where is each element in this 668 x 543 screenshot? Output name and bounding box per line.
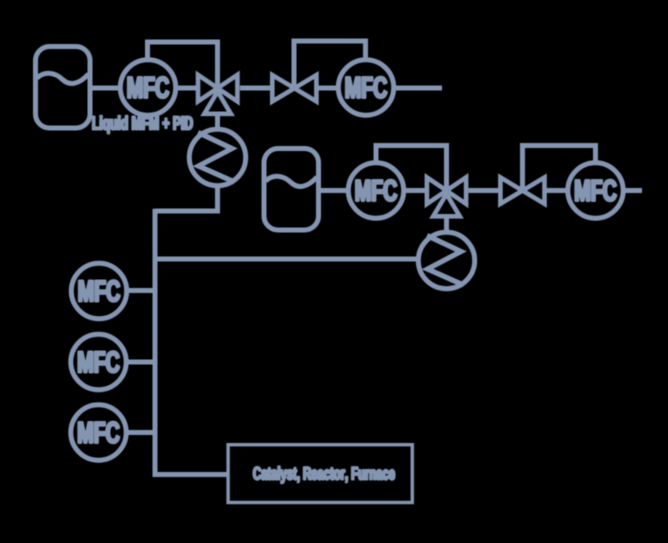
wire T2 to MFC3 — [319, 188, 349, 193]
wire MFC4 outlet — [623, 188, 642, 193]
wire V1 to V2 — [240, 86, 272, 91]
heater zigzag E1 — [198, 133, 235, 183]
label MFC M1 — [128, 77, 169, 98]
wire V3 to evaporator E2 — [444, 216, 449, 233]
valve V1 (3-way valve, row 1) — [198, 75, 237, 114]
label MFC M2 — [346, 77, 387, 98]
tank T1 (liquid vessel, row 1) — [36, 47, 91, 129]
wire MFC3 to V3 — [404, 188, 426, 193]
MFC M3 (row 2 liquid MFC) — [348, 163, 403, 218]
tank T2 (liquid vessel, row 2) — [264, 149, 319, 231]
wire MFC2 outlet — [394, 86, 442, 91]
label MFC M6 — [79, 351, 120, 372]
evaporator E2 (CEM, row 2) — [418, 232, 474, 288]
wire MFC1 to V1 — [176, 86, 196, 91]
label MFC M5 — [79, 280, 120, 301]
wire header spine — [155, 209, 227, 475]
MFC M7 (gas MFC 3) — [71, 405, 126, 460]
wire V1 to evaporator E1 — [215, 114, 220, 130]
wire bypass row1 left (MFC1 top to valve V1) — [148, 42, 218, 88]
wire bypass row1 right (valve V2 to MFC2 top) — [294, 41, 366, 88]
MFC M1 (row 1 liquid MFC) — [120, 60, 175, 115]
valve V4 (2-way valve, row 2) — [500, 177, 544, 203]
MFC M2 (row 1 outlet MFC) — [338, 60, 393, 115]
wire V3 to V4 — [469, 188, 501, 193]
liquid level wave T2 — [266, 176, 318, 186]
label MFC M7 — [79, 422, 120, 443]
wire bypass row2 right (valve V4 to MFC4 top) — [523, 146, 596, 191]
valve V3 (3-way valve, row 2) — [427, 177, 466, 216]
wire MFC6 to header — [126, 360, 155, 365]
wire MFC5 to header — [127, 288, 155, 293]
MFC M5 (gas MFC 1) — [71, 263, 126, 318]
wire V4 to MFC4 — [546, 188, 568, 193]
heater zigzag E2 — [427, 236, 464, 286]
valve V2 (2-way valve, row 1) — [272, 75, 316, 101]
wire MFC7 to header — [126, 430, 155, 435]
label MFC M4 — [576, 180, 617, 201]
wire bypass row2 left (MFC3 top to valve V3) — [376, 146, 447, 191]
label "Liquid MFM + PID" — [93, 116, 193, 134]
MFC M6 (gas MFC 2) — [71, 334, 126, 389]
wire E1 to header — [155, 186, 218, 212]
wire T1 to MFC1 — [90, 86, 120, 91]
label box text "Catalyst, Reactor, Furnace" — [253, 466, 394, 483]
wire header branch to evaporator E2 — [155, 257, 417, 262]
label MFC M3 — [356, 180, 397, 201]
box: downstream equipment (Catalyst, Reactor, Furnace) — [228, 445, 412, 503]
wire V2 to MFC2 — [317, 86, 338, 91]
evaporator E1 (CEM, row 1) — [189, 129, 245, 185]
MFC M4 (row 2 outlet MFC) — [568, 163, 623, 218]
liquid level wave T1 — [37, 73, 89, 83]
